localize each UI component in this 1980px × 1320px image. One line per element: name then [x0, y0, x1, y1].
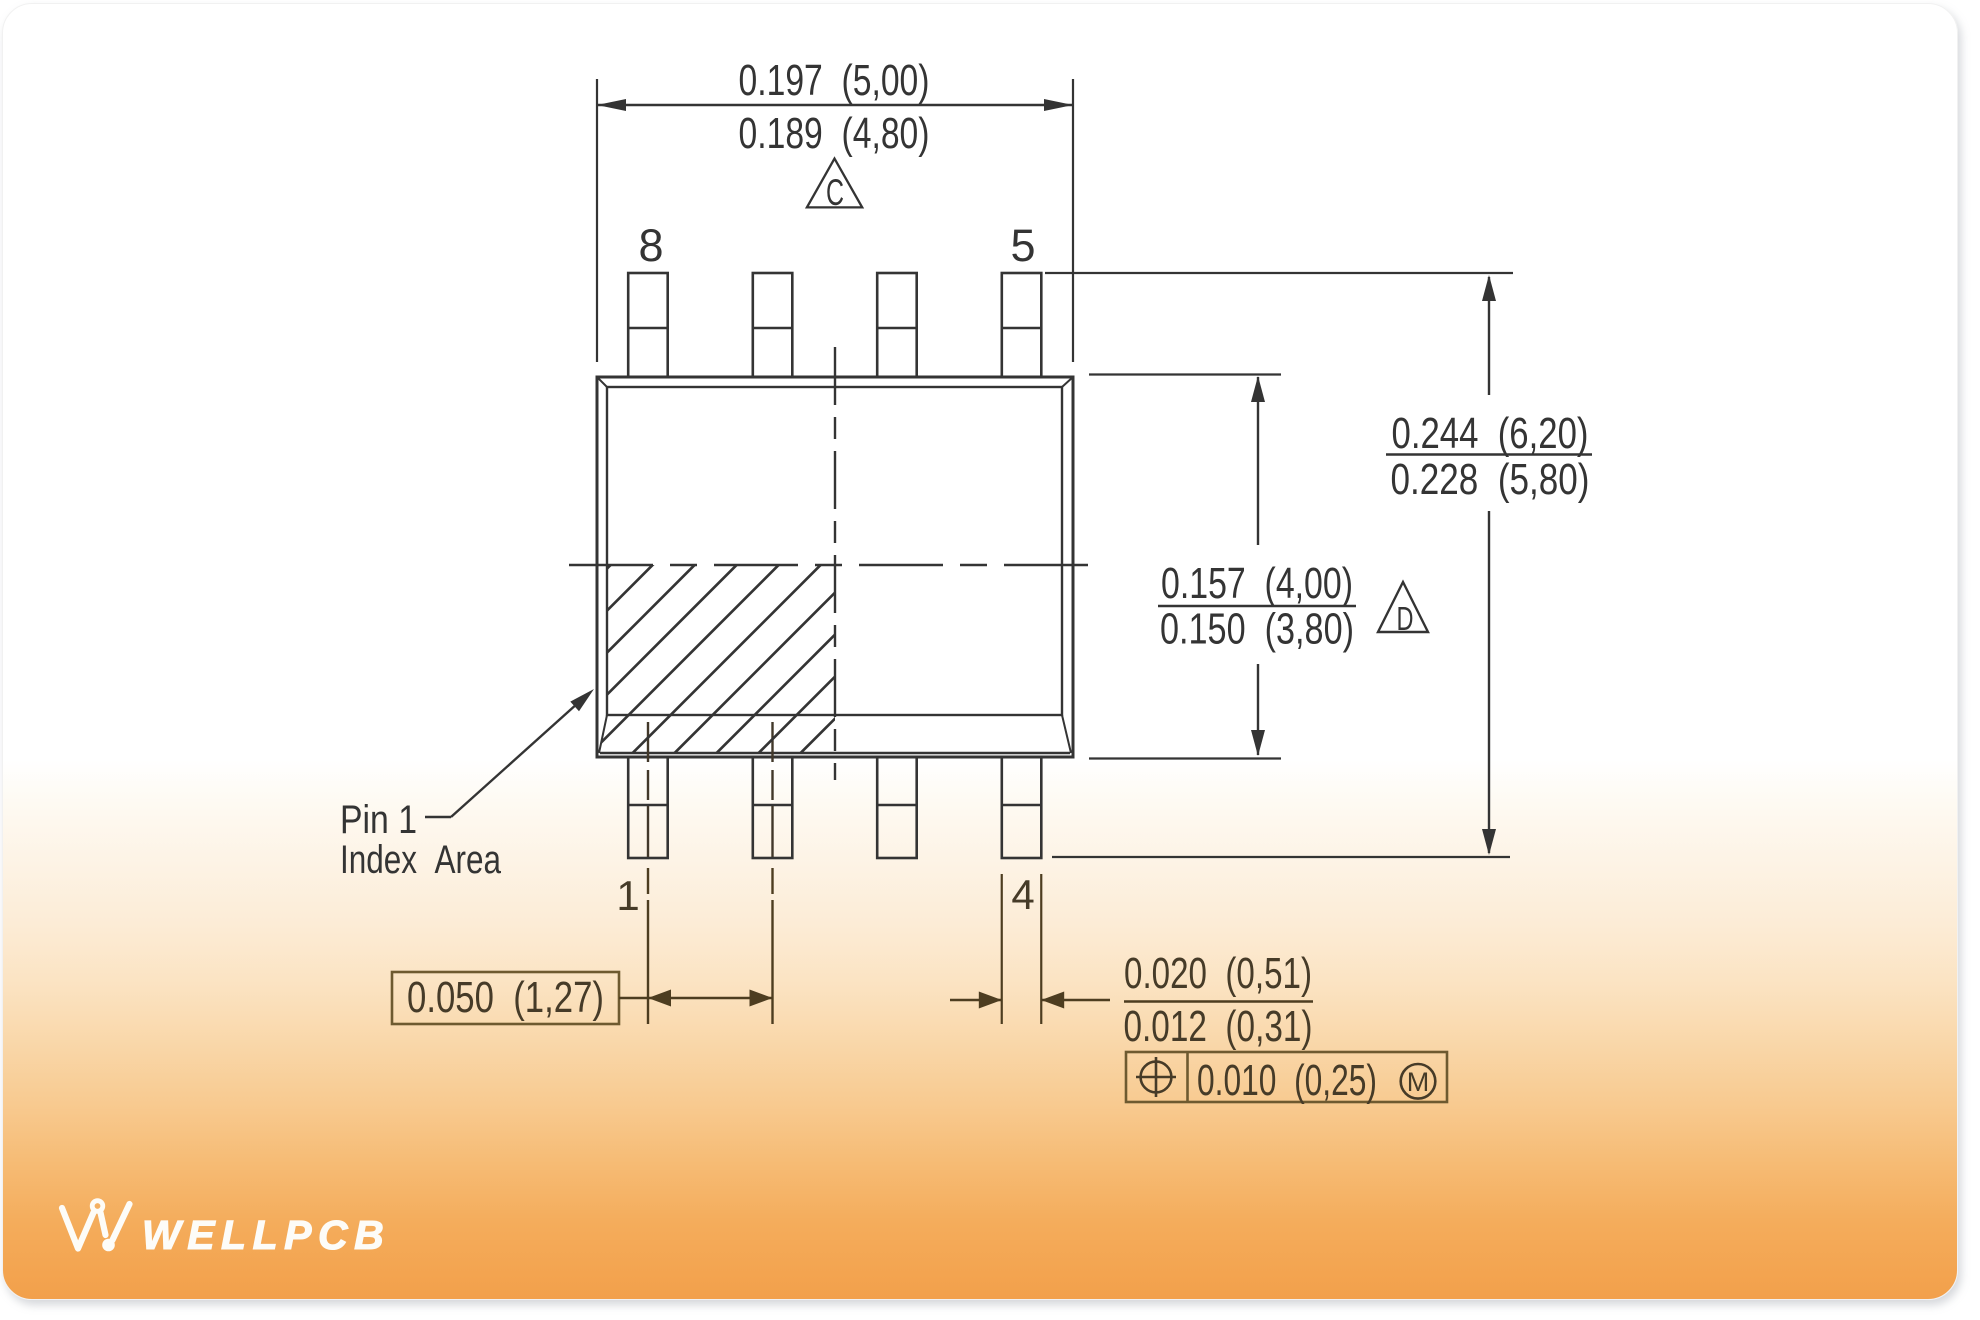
svg-text:Pin 1: Pin 1: [340, 798, 417, 842]
svg-text:WELLPCB: WELLPCB: [142, 1212, 390, 1258]
svg-text:0.189 (4,80): 0.189 (4,80): [739, 109, 930, 158]
svg-text:1: 1: [616, 872, 639, 919]
svg-text:M: M: [1407, 1067, 1430, 1097]
svg-text:C: C: [826, 172, 844, 213]
svg-text:0.157 (4,00): 0.157 (4,00): [1161, 559, 1353, 608]
svg-text:Index Area: Index Area: [340, 838, 502, 882]
svg-text:0.010 (0,25): 0.010 (0,25): [1197, 1056, 1377, 1105]
svg-text:0.020 (0,51): 0.020 (0,51): [1124, 949, 1312, 998]
svg-text:D: D: [1397, 600, 1414, 637]
svg-text:0.228 (5,80): 0.228 (5,80): [1391, 455, 1590, 504]
svg-text:0.012 (0,31): 0.012 (0,31): [1124, 1002, 1313, 1051]
svg-text:5: 5: [1010, 220, 1035, 271]
svg-text:0.244 (6,20): 0.244 (6,20): [1392, 409, 1589, 458]
svg-text:4: 4: [1011, 871, 1034, 918]
svg-text:0.050 (1,27): 0.050 (1,27): [407, 973, 604, 1022]
svg-text:8: 8: [638, 220, 663, 271]
svg-text:0.150 (3,80): 0.150 (3,80): [1160, 605, 1354, 654]
svg-text:0.197 (5,00): 0.197 (5,00): [739, 56, 930, 105]
